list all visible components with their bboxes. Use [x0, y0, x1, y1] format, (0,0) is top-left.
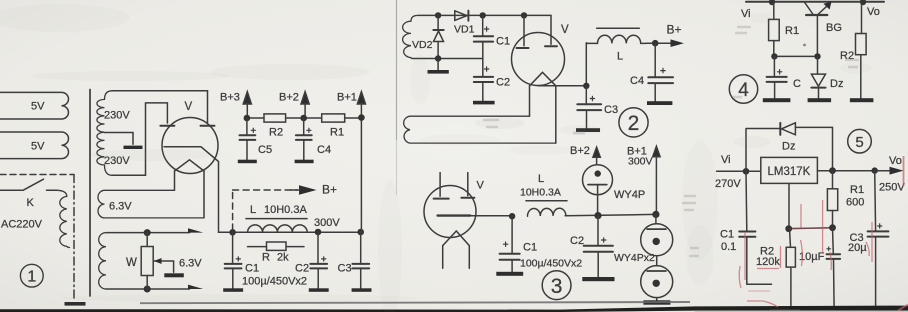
svg-text:W: W	[126, 257, 137, 269]
node plate tap	[521, 12, 527, 18]
filament of V	[530, 72, 556, 86]
svg-text:6.3V: 6.3V	[179, 258, 202, 270]
svg-text:300V: 300V	[628, 156, 653, 168]
shield boundary (dashed)	[0, 174, 74, 176]
svg-text:LM317K: LM317K	[768, 166, 811, 178]
svg-text:C3: C3	[338, 263, 352, 275]
svg-text:C1: C1	[720, 229, 734, 241]
svg-text:V: V	[185, 101, 193, 113]
cathode wire to rail	[470, 215, 512, 217]
capacitor C2	[482, 59, 484, 101]
svg-text:L: L	[617, 51, 623, 63]
svg-text:WY4P: WY4P	[614, 189, 645, 201]
wire: HV bottom to plate	[112, 103, 167, 175]
protection diode branch	[746, 127, 833, 171]
svg-text:C1: C1	[523, 242, 537, 254]
transistor BG base bar	[806, 14, 827, 16]
ground (C3)	[352, 288, 372, 292]
svg-text:6.3V: 6.3V	[109, 201, 132, 213]
plate (left)	[517, 47, 529, 49]
svg-text:3: 3	[551, 275, 563, 298]
main rail	[565, 214, 656, 215]
ground (C1)	[496, 272, 523, 276]
transistor BG base lead	[816, 16, 818, 57]
arrow to heaters (bottom)	[188, 285, 203, 294]
svg-text:B+3: B+3	[220, 92, 240, 104]
circled number 4	[729, 75, 757, 103]
wire: winding bottom rail	[413, 58, 483, 60]
B+1 arrow	[653, 146, 660, 156]
base node rail	[774, 55, 818, 57]
node (B+1 / C3)	[357, 229, 364, 236]
transistor BG collector	[805, 2, 813, 14]
dashed B+ tap	[233, 190, 297, 230]
svg-text:VD2: VD2	[412, 39, 433, 51]
potentiometer W (humdinger)	[146, 233, 148, 289]
capacitor 10uF	[833, 228, 835, 308]
main B+ rail after rectifier	[219, 231, 362, 233]
node (Vi)	[743, 168, 750, 175]
diode VD2	[437, 15, 439, 29]
wire: HV centre tap	[105, 133, 134, 145]
svg-text:600: 600	[846, 197, 864, 209]
winding AC220V primary	[57, 190, 70, 247]
capacitor C2	[317, 232, 319, 289]
ground (Dz)	[808, 98, 832, 102]
svg-text:100µ/450Vx2: 100µ/450Vx2	[242, 276, 307, 288]
cathode bar	[438, 214, 471, 216]
node C1 top	[480, 12, 486, 18]
node on heater bottom	[144, 286, 151, 293]
svg-text:Vo: Vo	[867, 6, 880, 18]
B+3 arrow	[243, 92, 251, 118]
shield boundary vertical (dash-dot)	[73, 175, 75, 300]
filament winding	[404, 116, 556, 143]
node VD2 top	[435, 12, 441, 18]
svg-text:1: 1	[27, 269, 36, 286]
B+2 arrow	[593, 147, 600, 157]
wire: heater bottom	[106, 288, 190, 290]
page bottom rule (thin)	[140, 302, 690, 303]
wire to ground	[656, 298, 658, 301]
node (300V)	[315, 229, 322, 236]
winding 6.3V	[98, 190, 204, 218]
transformer core	[89, 90, 91, 297]
svg-text:C4: C4	[317, 144, 331, 156]
IC LM317K	[761, 157, 818, 183]
svg-text:300V: 300V	[314, 217, 340, 229]
resistor R1	[773, 2, 775, 56]
capacitor C1 100u	[232, 232, 234, 288]
wire: top rail	[418, 15, 551, 44]
capacitor C3	[360, 232, 362, 289]
switch K	[0, 189, 22, 191]
node on heater top	[144, 229, 151, 236]
svg-text:Dz: Dz	[782, 141, 795, 153]
svg-text:C1: C1	[245, 263, 259, 275]
svg-text:R2: R2	[269, 127, 283, 139]
svg-text:2: 2	[628, 112, 640, 135]
output wire Vo	[817, 170, 890, 172]
regulator tube WY4P (upper)	[641, 224, 673, 256]
page table border	[396, 0, 398, 140]
plate lead (right)	[467, 173, 469, 196]
node (C3 top)	[872, 167, 878, 173]
diode Dz	[782, 123, 796, 135]
capacitor C	[773, 56, 775, 98]
node (Dz)	[814, 53, 820, 59]
node B+2	[300, 115, 307, 122]
ground (shield)	[65, 302, 86, 306]
node (C)	[771, 53, 777, 59]
node (C1/L)	[509, 213, 515, 219]
choke L core line	[597, 27, 640, 29]
winding 6.3V heater (with W)	[99, 233, 106, 289]
bleed-through ghost text rows	[483, 27, 859, 311]
svg-text:R1: R1	[850, 184, 864, 196]
ADJ lead	[788, 183, 790, 228]
svg-text:B+: B+	[322, 183, 337, 197]
plate (left)	[434, 198, 449, 200]
ground (wiper 6.3V tap)	[164, 273, 184, 277]
capacitor C4	[303, 118, 305, 160]
plate (left) of rectifier V	[160, 125, 174, 127]
arrow B+	[671, 39, 685, 47]
choke L 10H0.3A	[527, 208, 565, 216]
capacitor C1	[482, 15, 484, 58]
ground (R2)	[850, 98, 874, 102]
svg-text:C4: C4	[630, 75, 644, 87]
svg-text:5: 5	[855, 134, 863, 151]
node B+1	[358, 114, 365, 121]
winding 5V (top)	[0, 92, 68, 119]
resistor R1	[322, 114, 345, 122]
regulator tube WY4P (lower)	[641, 266, 673, 298]
capacitor C5	[246, 118, 248, 160]
capacitor C3	[585, 86, 587, 128]
arrow to heaters (top)	[188, 228, 203, 237]
circled number 5	[848, 129, 872, 153]
ground (C2)	[473, 101, 495, 105]
filament leg (left)	[529, 86, 531, 116]
svg-text:Vo: Vo	[889, 155, 902, 167]
B+ divider rail	[247, 117, 361, 119]
filament leg (right)	[468, 246, 470, 269]
svg-text:B+2: B+2	[279, 92, 299, 104]
svg-text:C1: C1	[496, 36, 510, 48]
capacitor C1 0.1	[746, 171, 772, 284]
svg-text:5V: 5V	[31, 141, 45, 153]
tube V envelope	[424, 186, 476, 238]
wire: HV top to plate	[112, 91, 208, 123]
ADJ rail	[789, 227, 833, 230]
circled number 1	[20, 264, 43, 287]
capacitor C2	[597, 216, 599, 277]
choke L core line	[526, 200, 567, 202]
svg-text:120k: 120k	[756, 256, 780, 268]
regulator tube WY4P	[583, 165, 613, 195]
svg-text:V: V	[477, 180, 485, 192]
svg-text:100µ/450Vx2: 100µ/450Vx2	[520, 258, 582, 270]
wire to regulator string	[655, 214, 657, 223]
ground (C2)	[309, 288, 329, 292]
filament of V	[443, 231, 470, 246]
circled number 2	[619, 108, 648, 137]
wire: heater top	[106, 232, 190, 234]
node (R1 bottom)	[829, 224, 836, 231]
wire to B+	[646, 42, 671, 44]
stray mark	[803, 44, 806, 47]
svg-text:WY4Px2: WY4Px2	[614, 252, 655, 264]
svg-text:V: V	[561, 24, 569, 36]
tube V (damper) envelope	[512, 33, 565, 86]
arrow B+	[299, 185, 317, 195]
svg-text:C5: C5	[258, 144, 272, 156]
ground (C5)	[238, 160, 257, 164]
svg-text:10H0.3A: 10H0.3A	[520, 187, 561, 199]
svg-text:R: R	[262, 252, 270, 264]
svg-text:B+1: B+1	[337, 92, 357, 104]
cathode output wire	[538, 43, 586, 86]
page bottom black band	[0, 309, 560, 312]
diode VD1	[455, 11, 467, 21]
plate (right) of rectifier V	[201, 125, 215, 127]
wiper of W	[154, 261, 174, 272]
resistor R2 120k	[790, 229, 791, 308]
svg-text:20µ: 20µ	[848, 242, 867, 254]
choke L core line	[246, 218, 307, 220]
node (B+2 / C2)	[594, 212, 601, 219]
svg-text:C: C	[793, 78, 801, 90]
winding 5V (bottom)	[0, 132, 69, 159]
B+1 arrow + feed line	[357, 92, 365, 232]
svg-text:B+: B+	[667, 23, 682, 37]
resistor R2	[264, 114, 286, 122]
link between regulators	[656, 256, 658, 266]
red annotation strokes	[739, 156, 908, 311]
circled number 3	[542, 271, 571, 300]
capacitor C4	[654, 43, 656, 101]
svg-text:K: K	[27, 197, 35, 209]
svg-text:B+2: B+2	[570, 145, 590, 157]
ground (regulator string)	[643, 300, 670, 304]
filament leg (left)	[442, 246, 444, 269]
ground (C4)	[647, 101, 672, 105]
choke L 10H0.3A	[248, 225, 308, 232]
plate lead (left)	[523, 15, 525, 45]
ground (C)	[763, 98, 791, 102]
svg-text:270V: 270V	[715, 178, 741, 190]
svg-text:L: L	[538, 173, 544, 185]
svg-text:R1: R1	[785, 25, 799, 37]
svg-text:BG: BG	[826, 22, 842, 34]
ground (centre tap)	[124, 146, 143, 149]
capacitor C3 20u	[874, 171, 877, 308]
svg-text:C2: C2	[496, 77, 510, 89]
svg-text:230V: 230V	[104, 110, 130, 122]
svg-text:10H0.3A: 10H0.3A	[264, 204, 307, 216]
input wire Vi	[717, 170, 761, 172]
svg-text:2k: 2k	[277, 252, 289, 264]
ground (C4)	[295, 160, 314, 164]
ground (C2)	[582, 277, 614, 281]
cathode of V	[164, 147, 219, 233]
ground (C1)	[223, 288, 243, 292]
node (ADJ)	[785, 225, 792, 232]
zener diode Dz	[817, 56, 819, 74]
node (C4 tap)	[652, 40, 659, 47]
svg-text:5V: 5V	[31, 101, 45, 113]
svg-text:AC220V: AC220V	[1, 219, 43, 231]
node (R1 top)	[829, 167, 836, 174]
svg-text:L: L	[250, 204, 256, 216]
plate (right)	[461, 197, 474, 199]
tube V (rectifier) envelope	[162, 118, 218, 174]
wire VD2 to ground	[437, 59, 439, 70]
B+2 arrow	[301, 92, 309, 118]
node (Vo)	[860, 0, 866, 5]
node (R1 tap)	[769, 0, 775, 5]
ground (VD2)	[428, 70, 449, 74]
transistor BG emitter with arrow	[818, 5, 828, 14]
filament leg (right)	[555, 86, 557, 143]
plate (right)	[545, 45, 557, 47]
plate lead (left)	[439, 173, 441, 197]
winding (HV secondary)	[403, 15, 418, 58]
choke L	[586, 35, 646, 43]
svg-text:C2: C2	[570, 235, 584, 247]
filament leg (right)	[203, 171, 205, 218]
HV winding 230V+230V	[105, 91, 113, 100]
svg-text:Dz: Dz	[830, 78, 843, 90]
node (C3 tap)	[583, 83, 589, 89]
node (B+1)	[652, 211, 659, 218]
resistor R 2k	[248, 246, 305, 248]
resistor R2	[860, 2, 863, 98]
svg-text:250V: 250V	[879, 182, 905, 194]
capacitor C1	[511, 216, 513, 272]
svg-text:C2: C2	[295, 263, 309, 275]
node B+3	[244, 115, 251, 122]
svg-text:VD1: VD1	[454, 24, 475, 36]
resistor R1 600	[832, 171, 834, 228]
svg-text:C3: C3	[604, 104, 618, 116]
svg-text:Vi: Vi	[721, 154, 731, 166]
input/output rail	[746, 1, 884, 3]
node (choke input)	[229, 229, 236, 236]
filament of V	[175, 160, 205, 171]
node VD2 bottom	[435, 55, 441, 61]
svg-text:R1: R1	[330, 127, 344, 139]
svg-text:0.1: 0.1	[721, 241, 736, 253]
ground (C3)	[576, 128, 600, 132]
filament leg (left)	[174, 171, 176, 190]
arrow Vo	[890, 167, 904, 175]
